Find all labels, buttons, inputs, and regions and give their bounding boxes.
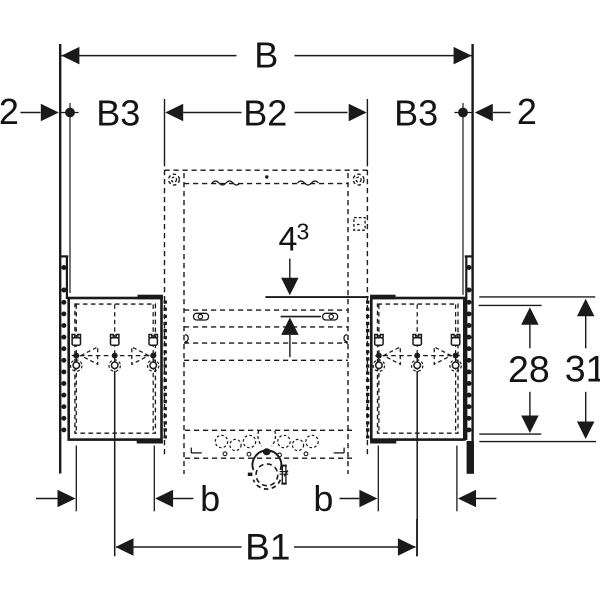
svg-text:B2: B2 — [243, 93, 287, 134]
svg-text:B3: B3 — [394, 93, 438, 134]
svg-text:2: 2 — [517, 91, 537, 132]
svg-text:4: 4 — [279, 220, 298, 258]
svg-text:31: 31 — [565, 348, 600, 390]
svg-text:3: 3 — [297, 218, 310, 244]
svg-text:b: b — [200, 478, 220, 519]
svg-text:B: B — [254, 35, 278, 76]
svg-text:2: 2 — [0, 91, 19, 132]
svg-text:B1: B1 — [245, 527, 290, 568]
svg-text:B3: B3 — [96, 93, 140, 134]
svg-text:b: b — [313, 478, 333, 519]
svg-text:28: 28 — [508, 348, 550, 390]
